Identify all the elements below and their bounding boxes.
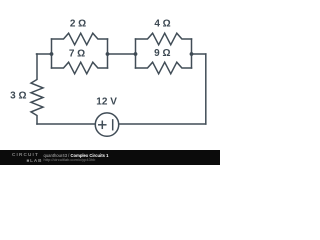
svg-text:2 Ω: 2 Ω xyxy=(70,19,86,30)
svg-text:4 Ω: 4 Ω xyxy=(154,19,170,30)
svg-text:12 V: 12 V xyxy=(96,96,117,107)
svg-text:9 Ω: 9 Ω xyxy=(154,48,170,59)
svg-text:3 Ω: 3 Ω xyxy=(10,90,26,101)
svg-text:7 Ω: 7 Ω xyxy=(69,49,85,60)
